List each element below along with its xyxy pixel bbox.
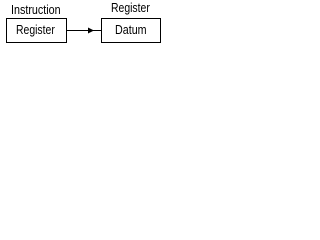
svg-text:Register: Register	[111, 0, 150, 15]
svg-text:Register: Register	[16, 22, 55, 37]
box Datum register	[101, 18, 161, 43]
wire connector between boxes	[67, 30, 101, 31]
box Instruction Register	[6, 18, 67, 43]
arrowhead pointing right	[88, 28, 94, 34]
svg-text:Datum: Datum	[115, 22, 147, 37]
svg-text:Instruction: Instruction	[11, 2, 61, 17]
